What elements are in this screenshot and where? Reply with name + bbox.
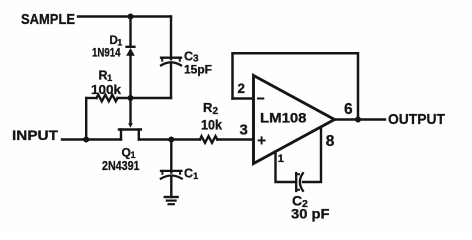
- wire pin 1 lead: [276, 152, 296, 182]
- wire gate node rail right: [118, 97, 172, 99]
- svg-text:10k: 10k: [201, 117, 222, 133]
- wire input rail: [62, 138, 121, 140]
- label C2: [292, 193, 308, 211]
- label 30 pF: [291, 207, 330, 222]
- svg-text:8: 8: [326, 133, 335, 150]
- svg-text:C: C: [184, 50, 193, 64]
- svg-text:C: C: [184, 167, 193, 181]
- wire C3 to gate node: [170, 63, 172, 98]
- wire gate node rail left: [86, 97, 96, 99]
- label LM108: [260, 111, 307, 126]
- wire feedback loop: [233, 53, 359, 119]
- op-amp inverting input mark: [258, 98, 263, 100]
- capacitor C3: [161, 58, 181, 66]
- label C1: [184, 167, 199, 183]
- node INPUT: [12, 127, 58, 143]
- junction sample/D1: [128, 14, 134, 20]
- svg-text:6: 6: [344, 101, 353, 118]
- svg-text:100k: 100k: [91, 82, 122, 97]
- label pin 6: [344, 101, 353, 118]
- label pin 8: [326, 133, 335, 150]
- svg-text:1N914: 1N914: [92, 46, 121, 60]
- label pin 2: [238, 81, 246, 96]
- wire D1 branch: [129, 17, 131, 47]
- svg-text:R: R: [203, 100, 213, 115]
- label 15pF: [184, 63, 212, 77]
- junction gate node: [128, 95, 134, 101]
- svg-text:2: 2: [238, 81, 246, 96]
- diode D1: [126, 47, 135, 56]
- capacitor C2: [296, 173, 303, 191]
- svg-text:3: 3: [240, 122, 248, 139]
- junction output/feedback: [355, 117, 361, 123]
- svg-text:1: 1: [278, 153, 284, 165]
- wire sample rail: [78, 15, 171, 17]
- label R2: [203, 100, 219, 117]
- label Q1: [122, 146, 136, 161]
- svg-text:LM108: LM108: [260, 111, 307, 126]
- svg-text:2N4391: 2N4391: [102, 159, 140, 173]
- label pin 1: [278, 153, 284, 165]
- wire output: [335, 118, 386, 120]
- wire drain rail to R2: [139, 138, 200, 140]
- capacitor C1: [161, 171, 182, 179]
- wire sample corner to C3: [170, 17, 172, 60]
- ground: [165, 197, 178, 204]
- label D1: [110, 35, 123, 48]
- wire D1 to gate node: [129, 56, 131, 99]
- resistor R1: [97, 95, 118, 102]
- label 10k: [201, 117, 222, 133]
- node OUTPUT: [388, 111, 445, 128]
- junction input/R1: [83, 137, 89, 143]
- label 2N4391: [102, 159, 140, 173]
- wire R2 to pin 3: [217, 138, 253, 140]
- junction C1 tap: [168, 137, 174, 143]
- label R1: [99, 69, 114, 85]
- svg-text:INPUT: INPUT: [12, 127, 58, 143]
- resistor R2: [200, 136, 217, 143]
- label C3: [184, 50, 199, 65]
- transistor Q1: [119, 98, 141, 140]
- wire C1 to ground: [170, 176, 172, 197]
- label 1N914: [92, 46, 121, 60]
- wire pin 8 lead: [303, 127, 321, 182]
- label pin 3: [240, 122, 248, 139]
- svg-text:SAMPLE: SAMPLE: [21, 12, 75, 28]
- svg-text:OUTPUT: OUTPUT: [388, 111, 445, 128]
- wire R1 drop to input: [85, 98, 87, 140]
- svg-text:30 pF: 30 pF: [291, 207, 330, 222]
- wire C1 branch: [170, 140, 172, 173]
- op-amp non-inverting input mark: [259, 137, 265, 143]
- svg-text:Q: Q: [122, 146, 131, 160]
- op-amp U1 LM108: [254, 76, 335, 164]
- node SAMPLE: [21, 12, 75, 28]
- svg-text:2: 2: [213, 106, 219, 117]
- svg-text:15pF: 15pF: [184, 63, 212, 77]
- label 100k: [91, 82, 122, 97]
- svg-text:1: 1: [193, 171, 199, 182]
- wire pin 2 stub: [233, 97, 254, 99]
